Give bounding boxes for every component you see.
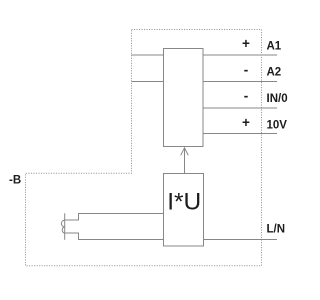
svg-text:10V: 10V <box>267 119 288 131</box>
svg-text:-: - <box>244 89 249 104</box>
svg-text:+: + <box>242 115 250 130</box>
measuring block I*U <box>164 174 204 247</box>
svg-text:A2: A2 <box>267 67 282 79</box>
svg-text:L/N: L/N <box>267 223 286 235</box>
current transformer coil T1 <box>61 213 64 240</box>
svg-text:+: + <box>242 36 250 51</box>
wire terminal A1 <box>203 54 277 56</box>
arrow from I*U to device block <box>181 148 189 174</box>
enclosure dashed boundary -B <box>26 30 262 266</box>
conductor busbar bottom edge <box>65 233 164 239</box>
svg-text:-B: -B <box>9 175 21 187</box>
current transformer core line <box>64 213 66 240</box>
wire A2 internal <box>132 80 164 82</box>
wire terminal L/N <box>204 238 278 240</box>
wire terminal A2 <box>203 80 277 82</box>
svg-text:IN/0: IN/0 <box>267 93 288 105</box>
wire terminal 10V <box>203 133 277 135</box>
wire A1 internal <box>132 54 164 56</box>
svg-text:A1: A1 <box>267 41 282 53</box>
svg-text:I*U: I*U <box>167 189 201 216</box>
conductor busbar top edge <box>65 213 164 220</box>
wire terminal IN/0 <box>203 107 277 109</box>
device block U1 (relay output module) <box>164 49 204 147</box>
svg-text:-: - <box>244 63 249 78</box>
